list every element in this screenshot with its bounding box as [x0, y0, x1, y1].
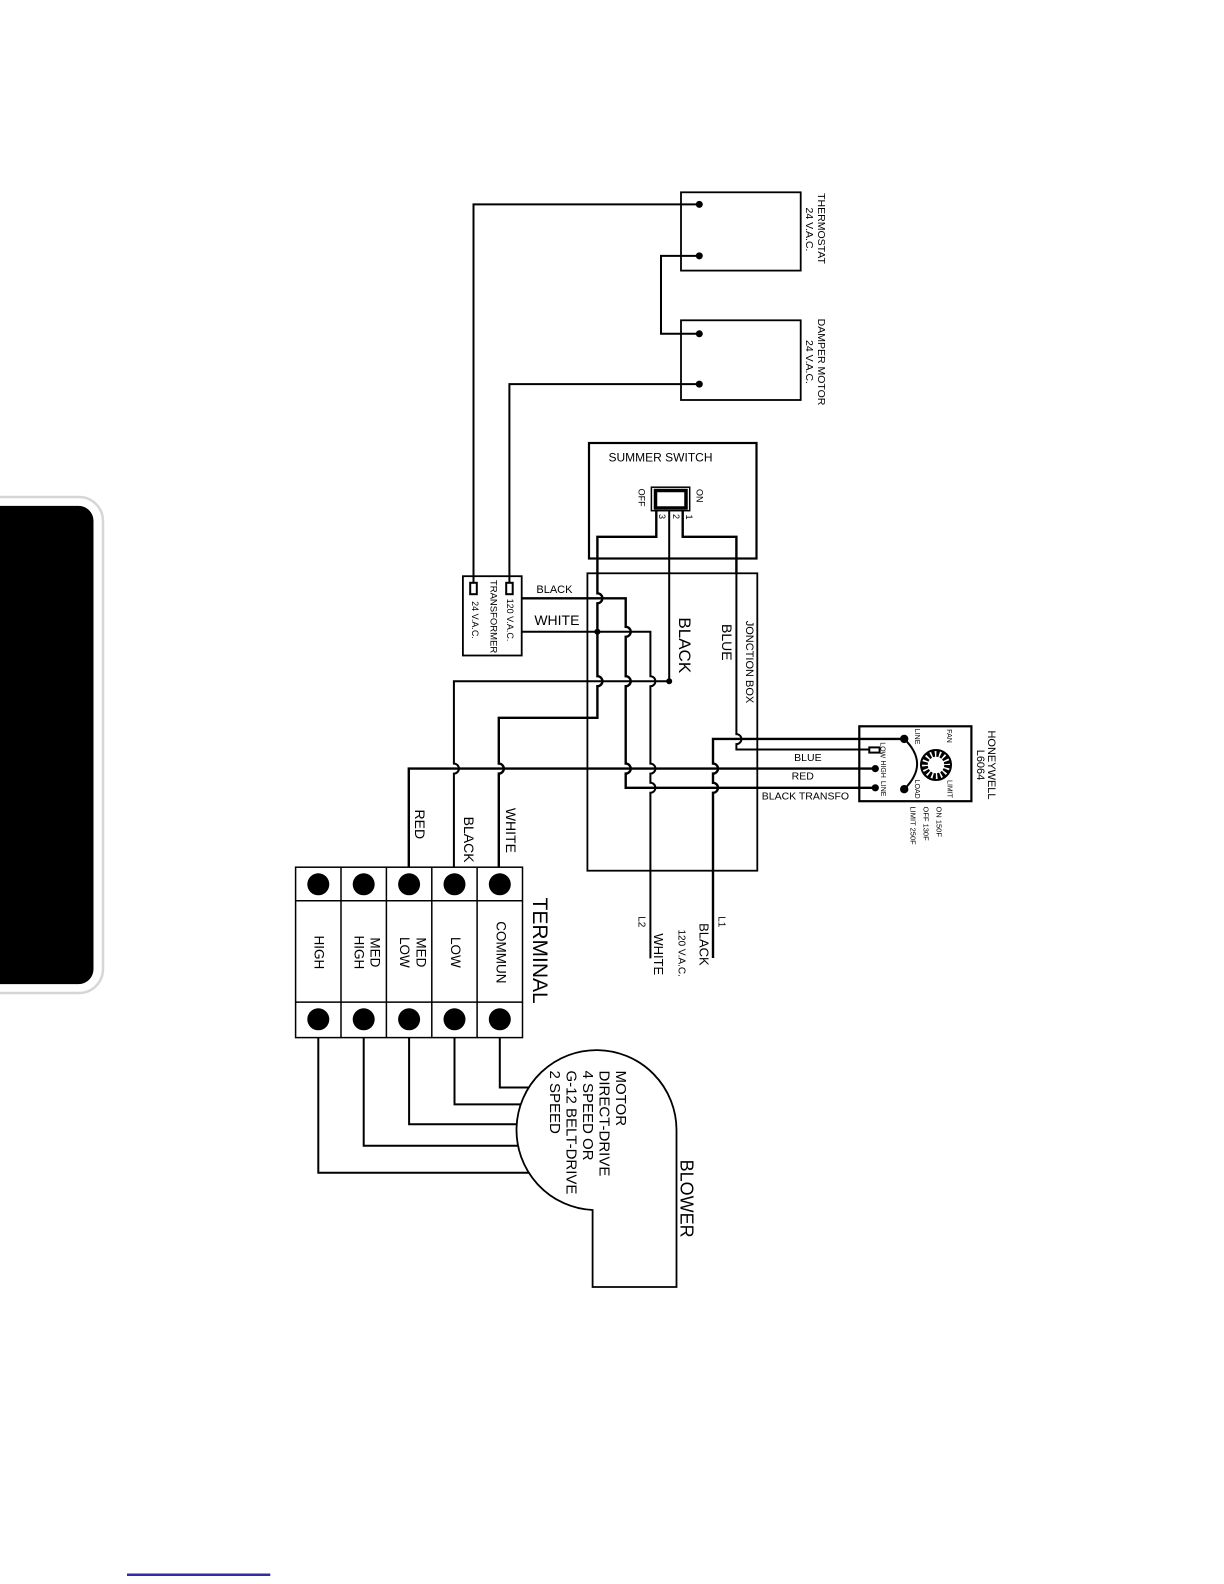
svg-text:L2: L2: [636, 916, 647, 928]
wire: switch pin 3 to white junction node and on to terminal COMMUN: [499, 511, 657, 868]
svg-text:LOW: LOW: [879, 742, 886, 758]
svg-text:WHITE: WHITE: [651, 933, 666, 975]
thermostat box: [681, 192, 801, 270]
svg-text:TERMINAL: TERMINAL: [528, 898, 551, 1004]
svg-text:3: 3: [657, 514, 667, 519]
svg-text:OFF 130F: OFF 130F: [922, 807, 931, 842]
terminal block: [296, 867, 523, 1037]
terminal MED LOW bottom lug: [398, 1008, 420, 1030]
svg-text:24 V.A.C.: 24 V.A.C.: [803, 340, 815, 384]
summer switch box: [589, 443, 757, 559]
svg-text:LINE: LINE: [913, 729, 920, 745]
terminal HIGH bottom lug: [307, 1008, 329, 1030]
svg-text:DAMPER MOTOR: DAMPER MOTOR: [815, 319, 827, 406]
svg-text:ON: ON: [694, 489, 704, 503]
svg-text:MOTOR: MOTOR: [612, 1071, 629, 1127]
wire: COMMUN lug to motor: [500, 1038, 529, 1088]
svg-text:LOW: LOW: [448, 937, 463, 968]
svg-text:JONCTION BOX: JONCTION BOX: [743, 621, 755, 704]
wire: thermostat terminal 1 to transformer 120V terminal 1: [474, 204, 700, 582]
node: thermostat terminal 2: [696, 252, 703, 259]
svg-text:LOW: LOW: [397, 937, 412, 968]
svg-text:4 SPEED OR: 4 SPEED OR: [579, 1071, 596, 1161]
svg-text:LIMIT 250F: LIMIT 250F: [908, 807, 917, 846]
svg-text:TRANSFORMER: TRANSFORMER: [488, 580, 499, 654]
damper motor box: [681, 320, 801, 400]
wire: HIGH lug to motor: [318, 1038, 529, 1173]
wire: LOW lug to motor: [455, 1038, 522, 1105]
svg-text:OFF: OFF: [637, 489, 647, 507]
label MED HIGH: [352, 936, 383, 970]
terminal MED LOW top lug: [398, 873, 420, 895]
Honeywell HIGH terminal: [872, 765, 879, 772]
svg-text:LINE: LINE: [879, 781, 886, 797]
svg-text:HIGH: HIGH: [312, 936, 327, 970]
wire: damper terminal 2 to transformer 120V terminal 2: [509, 384, 699, 583]
wire: L1 to Honeywell LINE dot: [713, 739, 904, 958]
svg-text:BLACK: BLACK: [675, 617, 694, 673]
Honeywell LOW terminal (rect): [869, 747, 879, 752]
svg-text:120 V.A.C.: 120 V.A.C.: [505, 599, 515, 642]
svg-text:L6064: L6064: [974, 750, 986, 781]
svg-text:BLUE: BLUE: [794, 752, 821, 764]
svg-text:HIGH: HIGH: [352, 936, 367, 970]
wire: thermostat terminal 2 to damper terminal 1: [661, 256, 699, 334]
svg-text:FAN: FAN: [945, 729, 952, 743]
svg-text:WHITE: WHITE: [503, 808, 519, 853]
svg-text:SUMMER SWITCH: SUMMER SWITCH: [609, 451, 713, 465]
svg-text:WHITE: WHITE: [534, 612, 579, 628]
svg-text:24 V.A.C.: 24 V.A.C.: [470, 601, 480, 639]
blower outline: [517, 1050, 677, 1287]
transformer box: [463, 576, 522, 655]
node: damper terminal 1: [696, 330, 703, 337]
terminal MED HIGH top lug: [353, 873, 375, 895]
svg-text:RED: RED: [792, 771, 815, 783]
svg-text:HIGH: HIGH: [879, 760, 886, 778]
node: thermostat terminal 1: [696, 201, 703, 208]
svg-text:24 V.A.C.: 24 V.A.C.: [803, 208, 815, 252]
switch blade arc LINE-LOAD: [904, 739, 917, 789]
terminal MED HIGH bottom lug: [353, 1008, 375, 1030]
node: pin2 junction: [666, 678, 672, 684]
svg-text:BLACK: BLACK: [536, 584, 573, 596]
svg-text:LOAD: LOAD: [913, 780, 920, 799]
svg-text:BLUE: BLUE: [719, 624, 735, 661]
wire: transformer WHITE to L2: [522, 632, 656, 959]
terminal HIGH top lug: [307, 873, 329, 895]
Honeywell LINE terminal (limit): [900, 735, 908, 743]
svg-text:BLACK: BLACK: [697, 923, 712, 966]
wire: MED HIGH lug to motor: [364, 1038, 518, 1146]
transformer terminal 2: [506, 583, 513, 594]
svg-text:LIMIT: LIMIT: [945, 780, 952, 799]
svg-text:L1: L1: [716, 916, 727, 928]
svg-text:120 V.A.C.: 120 V.A.C.: [676, 929, 687, 976]
svg-text:BLOWER: BLOWER: [676, 1160, 696, 1238]
switch S1 inner: [656, 491, 687, 509]
dial teeth: [925, 754, 948, 777]
svg-text:COMMUN: COMMUN: [493, 921, 508, 983]
Honeywell LINE terminal (fan): [872, 784, 879, 791]
svg-text:THERMOSTAT: THERMOSTAT: [815, 193, 827, 264]
terminal LOW top lug: [444, 873, 466, 895]
terminal COMMUN bottom lug: [489, 1008, 511, 1030]
svg-text:BLACK TRANSFO: BLACK TRANSFO: [762, 791, 849, 803]
svg-text:BLACK: BLACK: [461, 817, 477, 864]
wire: switch pin 1 / BLUE down to Honeywell LOW terminal: [683, 511, 737, 574]
svg-text:G-12 BELT-DRIVE: G-12 BELT-DRIVE: [563, 1071, 580, 1195]
svg-text:2: 2: [671, 514, 681, 519]
wire: MED LOW lug to motor: [409, 1038, 517, 1125]
transformer terminal 1: [470, 583, 477, 594]
motor label: [546, 1071, 629, 1195]
thermostat label: [803, 193, 827, 264]
svg-text:MED: MED: [414, 937, 429, 967]
svg-text:MED: MED: [368, 937, 383, 967]
wire: junction node to terminal LOW: [454, 681, 670, 867]
node: damper terminal 2: [696, 381, 703, 388]
terminal LOW bottom lug: [444, 1008, 466, 1030]
terminal COMMUN top lug: [489, 873, 511, 895]
svg-text:ON 150F: ON 150F: [934, 807, 943, 838]
svg-text:RED: RED: [412, 810, 428, 840]
label HONEYWELL L6064: [974, 730, 997, 799]
svg-text:DIRECT-DRIVE: DIRECT-DRIVE: [595, 1071, 612, 1177]
footer blue line: [127, 1574, 270, 1577]
svg-text:1: 1: [684, 514, 694, 519]
svg-text:2 SPEED: 2 SPEED: [546, 1071, 563, 1135]
wire: transformer BLACK to Honeywell LINE terminal: [522, 598, 876, 788]
wire: switch pin 2 down to junction node: [668, 511, 670, 682]
wire: RED from Honeywell HIGH to terminal MED LOW: [409, 769, 876, 868]
Honeywell L6064 fan-limit control box: [859, 726, 971, 801]
black index tab (left edge): [0, 497, 103, 993]
node: white/pin3 junction: [594, 629, 600, 635]
switch S1 outer: [651, 487, 689, 511]
label MED LOW: [397, 937, 428, 968]
junction box: [587, 573, 757, 870]
Honeywell LOAD terminal: [900, 785, 908, 793]
dial outer circle: [921, 750, 951, 780]
damper motor label: [803, 319, 827, 406]
